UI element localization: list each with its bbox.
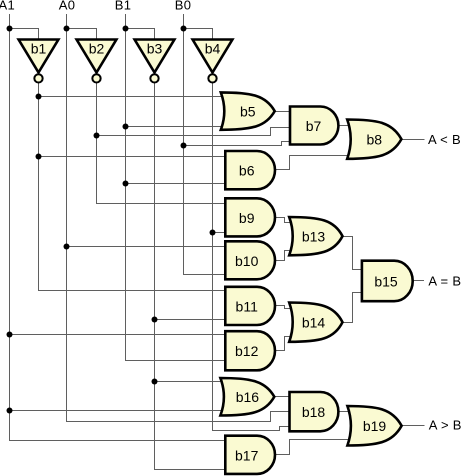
wire b14 to b15 [343,293,364,323]
svg-text:A = B: A = B [428,274,461,289]
inverter b3 [135,40,175,83]
node junction B0-b7 [181,143,187,149]
and-gate b17 [225,436,275,474]
svg-text:A > B: A > B [429,418,461,433]
and-gate b15 [362,261,413,302]
wire b13 to b15 [343,237,364,270]
node junction A1-b16 [7,408,13,414]
wire notA0 rail [97,83,227,204]
wire b16 to b18 [275,396,292,398]
wire b4 input tap [184,29,213,41]
wire A0 rail [67,14,292,422]
wire A0 to b10 [67,246,228,248]
wire B0 rail [184,14,227,275]
svg-text:b14: b14 [302,315,326,331]
wire b7 to b8 [339,125,353,127]
node junction A0-b2 [64,26,70,32]
wire b1 input tap [10,29,39,41]
wire notB1 to b16 [155,381,226,383]
inverter b4 [193,40,233,83]
node junction A0-b10 [64,244,70,250]
wire notB0 rail [213,83,292,431]
wire notB1 to b11 [155,319,228,321]
wire notA1 rail [39,83,227,291]
node junction notB1-b16 [152,379,158,385]
and-gate b6 [225,151,275,189]
wire notA0 to b7 [97,128,293,136]
and-gate b10 [225,241,275,279]
svg-text:b9: b9 [239,210,255,226]
wire b5 to b7 [275,111,292,113]
wire b11 to b14 [275,306,293,309]
node junction A1-b1 [7,26,13,32]
or-gate b8 [347,120,401,159]
svg-text:A0: A0 [59,0,76,13]
svg-text:b19: b19 [363,418,387,434]
or-gate b19 [347,406,401,446]
node junction A1-b12 [7,332,13,338]
wire B0 to b7 [184,142,293,146]
wire B1 rail [126,14,227,361]
svg-text:b3: b3 [147,40,163,56]
or-gate b16 [220,378,274,416]
svg-text:b4: b4 [205,40,221,56]
and-gate b12 [225,331,275,370]
svg-text:b12: b12 [235,343,259,359]
node junction notA1-b6 [36,154,42,160]
wire b19 output [401,425,424,427]
node junction notA0-b7 [94,133,100,139]
svg-text:b11: b11 [236,298,259,314]
wire b8 output [401,139,425,141]
node junction B1-b3 [123,26,129,32]
svg-text:B1: B1 [115,0,132,13]
svg-text:A < B: A < B [428,132,461,147]
and-gate b18 [290,392,339,431]
wire notA1 to b6 [39,156,228,158]
wire b10 to b13 [275,251,293,261]
or-gate b13 [289,217,342,255]
wire notB1 rail [155,83,227,470]
wire b9 to b13 [275,218,293,223]
svg-text:A1: A1 [0,0,15,13]
and-gate b11 [225,287,275,325]
svg-text:b15: b15 [374,273,398,289]
svg-text:b6: b6 [239,163,255,179]
node junction B0-b4 [181,26,187,32]
svg-text:b18: b18 [302,404,326,420]
svg-text:b16: b16 [236,389,260,405]
and-gate b7 [290,107,338,145]
wire b3 input tap [126,29,155,41]
wire b6 to b8 [275,156,352,170]
inverter b1 [19,40,59,83]
svg-text:b2: b2 [89,40,105,56]
wire B1 to b6 [126,183,228,185]
inverter b2 [77,40,117,83]
wire b15 output [413,280,424,282]
wire notA1 to b5 [39,96,226,98]
svg-text:b7: b7 [306,118,322,134]
wire A1 to b12 [10,334,228,336]
svg-text:b1: b1 [31,40,47,56]
wire b12 to b14 [275,337,293,351]
svg-text:b8: b8 [367,132,383,148]
wire b18 to b19 [338,411,352,413]
svg-text:b13: b13 [302,229,326,245]
wire A1 to b16 [10,410,226,412]
wire b17 to b19 [275,440,352,455]
svg-text:b5: b5 [240,104,256,120]
and-gate b9 [225,198,275,236]
svg-text:b17: b17 [235,447,259,463]
node junction notB1-b11 [152,317,158,323]
svg-text:B0: B0 [175,0,192,13]
or-gate b14 [289,303,342,342]
node junction B1-b6 [123,181,129,187]
or-gate b5 [221,92,275,129]
node junction notB0-b9 [210,230,216,236]
wire notB0 to b9 [213,232,228,234]
node junction notA1-b5 [36,94,42,100]
wire A1 rail [10,14,227,441]
wire b2 input tap [67,29,97,41]
node junction B1-b5 [123,124,129,130]
svg-text:b10: b10 [235,253,259,269]
wire B1 to b5 [126,126,226,128]
